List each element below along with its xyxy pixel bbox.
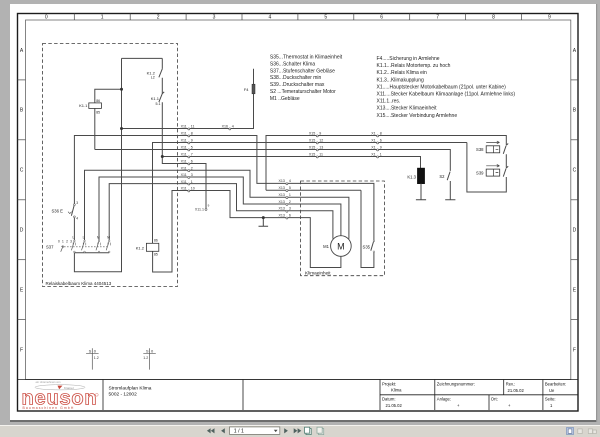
svg-text:K1.1...Relais Motortemp. zu ho: K1.1...Relais Motortemp. zu hoch: [377, 63, 451, 69]
ground at X13_6: [259, 218, 269, 227]
svg-text:7: 7: [436, 15, 439, 21]
svg-text:K1.3: K1.3: [407, 175, 416, 180]
svg-text:3: 3: [191, 173, 193, 177]
svg-text:X11: X11: [181, 160, 187, 164]
svg-text:S39...Druckschalter max: S39...Druckschalter max: [270, 82, 325, 88]
svg-text:K1.2: K1.2: [147, 70, 156, 75]
svg-text:4: 4: [232, 125, 234, 129]
svg-text:F: F: [573, 347, 576, 353]
svg-text:4: 4: [76, 216, 78, 220]
svg-text:M1: M1: [323, 244, 329, 249]
toolbar panel: [0, 425, 600, 437]
svg-text:X13: X13: [278, 193, 284, 197]
bottom-right window icons: [567, 428, 574, 435]
clutch K1.3: [407, 168, 426, 200]
svg-text:D: D: [20, 228, 24, 234]
svg-text:X13....Stecker Klimaeinheit: X13....Stecker Klimaeinheit: [377, 106, 438, 112]
svg-text:M: M: [97, 235, 100, 239]
svg-text:X15: X15: [309, 132, 315, 136]
svg-text:D: D: [573, 228, 577, 234]
connector X11 pins: [188, 128, 190, 192]
svg-text:X16: X16: [222, 125, 228, 129]
svg-text:3: 3: [76, 201, 78, 205]
svg-text:X11: X11: [181, 132, 187, 136]
wire net X13_5 - X15_9 - X1_8 - S38: [266, 136, 506, 191]
svg-text:9: 9: [380, 146, 382, 150]
svg-text:Anlage:: Anlage:: [437, 397, 451, 402]
connector X1 pins: [377, 135, 379, 158]
svg-text:S35: S35: [363, 245, 371, 250]
svg-text:S38: S38: [476, 147, 484, 152]
svg-text:L: L: [83, 235, 85, 239]
svg-text:K1.2...Relais Klima ein: K1.2...Relais Klima ein: [377, 70, 428, 76]
pressure switch S39: [476, 165, 508, 177]
svg-text:S2 ...Temeraturschalter Motor: S2 ...Temeraturschalter Motor: [270, 89, 336, 95]
left margin ticks: [18, 79, 26, 81]
svg-text:X13: X13: [278, 200, 284, 204]
blower motor M1: [287, 197, 351, 267]
TITLE BLOCK: [18, 380, 579, 411]
page right shadow: [596, 4, 597, 422]
ruler column ticks: [73, 14, 75, 21]
svg-text:Relaiskabelbaum Klima 4404513: Relaiskabelbaum Klima 4404513: [46, 281, 112, 286]
svg-text:Zeichnungsnummer:: Zeichnungsnummer:: [437, 382, 475, 387]
svg-text:85: 85: [154, 252, 158, 256]
svg-text:1: 1: [289, 193, 291, 197]
svg-text:1: 1: [191, 180, 193, 184]
svg-text:Projekt:: Projekt:: [382, 382, 396, 387]
svg-text:3: 3: [213, 15, 216, 21]
potential symbol S0/1.2 right: [143, 348, 156, 369]
page bottom shadow: [10, 420, 596, 422]
svg-text:11: 11: [319, 153, 323, 157]
svg-text:Klimaeinheit: Klimaeinheit: [305, 271, 331, 276]
svg-text:K1.1: K1.1: [79, 103, 88, 108]
pressure switch S38: [476, 141, 508, 168]
svg-text:M: M: [337, 241, 345, 251]
svg-text:X11: X11: [181, 139, 187, 143]
svg-text:S37...Stufenschalter Gebläse: S37...Stufenschalter Gebläse: [270, 68, 335, 74]
svg-text:5002 - 12002: 5002 - 12002: [109, 392, 138, 398]
Klimaeinheit dashed box: [301, 181, 385, 276]
wire supply net: F4 - X16_4 - X11_11 - S37 common - K1.2 contact top: [74, 58, 253, 271]
svg-text:X13: X13: [278, 207, 284, 211]
svg-text:S35...Thermostat in Klimaeinhe: S35...Thermostat in Klimaeinheit: [270, 55, 343, 61]
temp switch S2: [439, 172, 455, 200]
junction node X13_6/ground: [262, 216, 265, 219]
svg-text:12: 12: [319, 139, 323, 143]
svg-text:L2: L2: [151, 76, 155, 80]
thermostat S35: [287, 183, 375, 267]
svg-text:9: 9: [548, 15, 551, 21]
svg-text:8: 8: [380, 132, 382, 136]
svg-text:7: 7: [191, 153, 193, 157]
svg-text:6: 6: [191, 160, 193, 164]
svg-text:S37: S37: [46, 244, 54, 249]
wire net X11_7 - X15_11 - X1_1 - K1.3: [162, 157, 420, 169]
svg-text:5.1: 5.1: [156, 102, 161, 106]
wire net S37c2 - X11_2 - X13_1: [85, 170, 287, 240]
svg-text:4: 4: [289, 179, 291, 183]
connector X15 pins: [316, 135, 318, 158]
svg-text:2: 2: [157, 15, 160, 21]
svg-text:9: 9: [319, 132, 321, 136]
svg-text:X11.1..res.: X11.1..res.: [377, 99, 401, 105]
svg-text:X13: X13: [278, 186, 284, 190]
svg-text:X1: X1: [371, 153, 375, 157]
svg-text:1 / 1: 1 / 1: [234, 429, 244, 435]
svg-text:X15....Stecker Verbindung Arml: X15....Stecker Verbindung Armlehne: [377, 113, 458, 119]
svg-text:86: 86: [96, 99, 100, 103]
svg-text:Stromlaufplan Klima: Stromlaufplan Klima: [109, 386, 152, 392]
relay coil K1.1: [79, 89, 121, 149]
svg-text:X1.....Hauptstecker Motorkabel: X1.....Hauptstecker Motorkabelbaum (21po…: [377, 84, 507, 90]
junction node supply/K1.1: [120, 88, 123, 91]
potential symbol S0/1.2 left: [86, 348, 99, 369]
svg-text:S: S: [146, 349, 149, 354]
svg-text:X11: X11: [181, 167, 187, 171]
svg-text:C: C: [573, 168, 577, 174]
drawing inner frame: [26, 20, 571, 380]
svg-text:X1: X1: [371, 132, 375, 136]
svg-text:X15: X15: [309, 146, 315, 150]
svg-text:1: 1: [380, 153, 382, 157]
svg-text:2: 2: [191, 167, 193, 171]
wire net K1.2 coil 86 - X11_9 - X15_12 - X1_6 - S39 return: [153, 143, 507, 244]
junction node K1.1 contact/X11_7: [161, 155, 164, 158]
svg-text:Datum:: Datum:: [382, 397, 396, 402]
svg-text:X11: X11: [181, 180, 187, 184]
neuson logo: [22, 380, 99, 410]
svg-text:S36...Schalter Klima: S36...Schalter Klima: [270, 61, 316, 67]
svg-text:ein Unternehmen von: ein Unternehmen von: [36, 380, 61, 384]
wire net S37c3 - X11_3 - X13_2: [99, 177, 287, 240]
svg-text:13: 13: [319, 146, 323, 150]
svg-text:Seite:: Seite:: [545, 397, 556, 402]
svg-text:86: 86: [154, 238, 158, 242]
connector X11.1 pin (res): [195, 204, 210, 212]
svg-text:4: 4: [269, 15, 272, 21]
svg-text:X11: X11: [181, 146, 187, 150]
svg-text:9: 9: [191, 139, 193, 143]
wire net S37c4 - X11_1 - X13_3: [109, 184, 287, 241]
svg-text:6: 6: [380, 15, 383, 21]
svg-text:S39: S39: [476, 171, 484, 176]
wire net X11_6 - X11.1: [162, 164, 206, 209]
svg-text:85: 85: [96, 111, 100, 115]
svg-text:Rev.:: Rev.:: [506, 382, 515, 387]
svg-text:Klima: Klima: [391, 388, 402, 393]
Relaiskabelbaum dashed box: [43, 44, 178, 287]
svg-text:L: L: [73, 235, 75, 239]
svg-text:6: 6: [289, 213, 291, 217]
svg-text:X11: X11: [181, 125, 187, 129]
svg-text:M1 ..Gebläse: M1 ..Gebläse: [270, 96, 300, 102]
LEGEND: [270, 55, 515, 119]
svg-text:5: 5: [324, 15, 327, 21]
svg-text:21.05.02: 21.05.02: [386, 403, 403, 408]
svg-text:S2: S2: [439, 174, 445, 179]
svg-text:1.2: 1.2: [94, 356, 99, 360]
relay contact K1.2 (L2): [147, 58, 163, 93]
svg-text:8: 8: [492, 15, 495, 21]
svg-text:S: S: [89, 349, 92, 354]
svg-text:Ue: Ue: [549, 388, 555, 393]
svg-text:M: M: [107, 235, 110, 239]
connector X16_4 pin: [222, 125, 234, 130]
wire net S36 - X11_8 - X13_4: [74, 136, 287, 205]
right margin ticks: [571, 79, 578, 81]
svg-text:K1.1: K1.1: [151, 96, 160, 101]
switch S36 E: [52, 201, 79, 240]
junction node supply/X11_11: [120, 127, 123, 130]
wire net K1.1 coil 85 - X11_5 - X15_13 - X1_9 - S2: [95, 150, 451, 171]
svg-text:X1: X1: [371, 146, 375, 150]
svg-text:X15: X15: [309, 153, 315, 157]
svg-text:X11....Stecker Kabelbaum Klima: X11....Stecker Kabelbaum Klimaanlage (11…: [377, 92, 516, 98]
svg-text:K1.2: K1.2: [136, 246, 145, 251]
svg-text:X11.1: X11.1: [195, 208, 204, 212]
svg-text:Baumaschinen GmbH: Baumaschinen GmbH: [23, 406, 75, 410]
svg-text:1.2: 1.2: [143, 356, 148, 360]
svg-text:X11: X11: [181, 187, 187, 191]
svg-text:5: 5: [191, 146, 193, 150]
relay contact K1.1 (5.1): [151, 92, 189, 164]
svg-text:K1.3...Klimakupplung: K1.3...Klimakupplung: [377, 77, 424, 83]
svg-text:6: 6: [380, 139, 382, 143]
svg-text:Bearbeiten:: Bearbeiten:: [545, 382, 566, 387]
svg-text:2: 2: [289, 200, 291, 204]
svg-text:Ort:: Ort:: [491, 397, 498, 402]
svg-text:X11: X11: [181, 153, 187, 157]
svg-text:X13: X13: [278, 213, 284, 217]
svg-text:0: 0: [45, 15, 48, 21]
svg-text:8: 8: [191, 132, 193, 136]
svg-text:F4: F4: [244, 87, 249, 92]
svg-text:21.05.02: 21.05.02: [508, 388, 525, 393]
svg-text:F4.....Sicherung in Armlehne: F4.....Sicherung in Armlehne: [377, 56, 440, 62]
fuse F4: [244, 84, 255, 94]
svg-text:0 1 2 3: 0 1 2 3: [58, 239, 73, 243]
wire net K1.2 coil 85 - X11_10 - X13_6 - ground: [153, 191, 287, 273]
svg-text:X13: X13: [278, 179, 284, 183]
stepswitch S37: [46, 235, 111, 252]
svg-text:5: 5: [289, 186, 291, 190]
svg-text:11: 11: [191, 125, 195, 129]
svg-text:X11: X11: [181, 173, 187, 177]
svg-text:1: 1: [101, 15, 104, 21]
svg-text:S36 E: S36 E: [52, 209, 64, 214]
TOOLBAR CONTROLS: [207, 427, 596, 435]
svg-text:X1: X1: [371, 139, 375, 143]
svg-text:F: F: [20, 347, 23, 353]
svg-text:X15: X15: [309, 139, 315, 143]
svg-text:3: 3: [289, 207, 291, 211]
svg-text:C: C: [20, 168, 24, 174]
svg-text:10: 10: [191, 187, 195, 191]
connector X13 pins: [286, 183, 288, 219]
svg-text:S38...Duckschalter min: S38...Duckschalter min: [270, 75, 322, 81]
relay coil K1.2: [136, 238, 159, 256]
